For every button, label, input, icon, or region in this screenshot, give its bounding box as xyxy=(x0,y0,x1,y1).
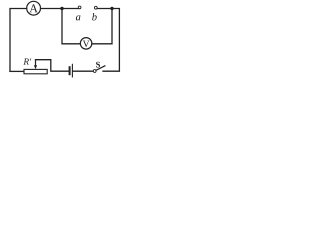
label a (terminal) xyxy=(76,15,81,20)
label A (ammeter) xyxy=(29,4,37,12)
label S (switch) xyxy=(96,62,100,68)
node junction dot top-left of voltmeter branch xyxy=(60,7,63,10)
ammeter A1 xyxy=(27,1,41,15)
switch S lever xyxy=(96,66,105,71)
wire b to top-right corner and right rail xyxy=(97,9,119,72)
wire ammeter to terminal a (junction at 62) xyxy=(41,8,79,10)
label V (voltmeter) xyxy=(83,41,90,47)
wire left rail + top-left corner xyxy=(10,9,27,72)
switch S pivot xyxy=(93,70,96,73)
wire bottom-left to rheostat xyxy=(10,70,24,72)
wire battery to switch xyxy=(73,70,93,72)
wire voltmeter branch left xyxy=(62,9,80,44)
rheostat slider arrow xyxy=(35,60,37,66)
label R' (rheostat) xyxy=(23,59,31,65)
battery BT1 positive plate (long thin) xyxy=(71,64,73,77)
label b (terminal) xyxy=(92,13,97,20)
wire slider to bottom rail xyxy=(36,60,69,71)
terminal a xyxy=(78,6,81,9)
voltmeter V1 xyxy=(80,38,92,50)
resistor R' body (rheostat box) xyxy=(24,69,47,73)
terminal b xyxy=(94,6,97,9)
wire voltmeter branch right xyxy=(92,9,112,44)
battery BT1 negative plate (short thick) xyxy=(69,67,71,74)
node junction dot for voltmeter right branch xyxy=(110,7,113,10)
